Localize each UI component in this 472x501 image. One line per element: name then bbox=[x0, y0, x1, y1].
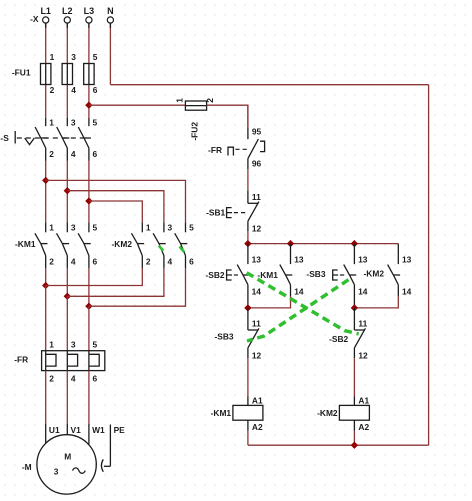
wire SB2 NC to coil KM2 bbox=[353, 358, 355, 396]
wire N terminal down bbox=[109, 23, 111, 84]
wire SB1 to control rail bbox=[247, 231, 249, 243]
pushbutton SB2 NC interlock bbox=[354, 308, 368, 360]
svg-text:A1: A1 bbox=[252, 396, 263, 406]
svg-text:13: 13 bbox=[402, 254, 412, 264]
svg-text:14: 14 bbox=[358, 286, 368, 296]
svg-text:12: 12 bbox=[252, 224, 262, 234]
node L2 branch bbox=[64, 187, 71, 194]
svg-text:5: 5 bbox=[93, 340, 98, 350]
svg-text:L3: L3 bbox=[84, 6, 95, 16]
svg-text:1: 1 bbox=[146, 223, 151, 233]
FR heater element 3 bbox=[89, 340, 99, 384]
coil KM2 bbox=[339, 396, 369, 433]
pushbutton SB3 NO start rev bbox=[333, 244, 368, 308]
wire coil return rail bottom bbox=[248, 444, 429, 446]
wire FR aux to SB1 bbox=[247, 169, 249, 190]
wire KM2 pole2 out join bbox=[67, 268, 164, 296]
svg-text:-SB1: -SB1 bbox=[206, 207, 225, 217]
terminal stubs bbox=[46, 23, 111, 28]
wire coil KM1 to bottom rail bbox=[247, 431, 249, 445]
svg-text:-FR: -FR bbox=[14, 355, 28, 365]
svg-text:11: 11 bbox=[252, 319, 261, 329]
svg-text:2: 2 bbox=[49, 373, 54, 383]
svg-text:3: 3 bbox=[71, 118, 76, 128]
wire L2 branch to KM2 pole2 bbox=[67, 191, 164, 223]
svg-text:3: 3 bbox=[168, 223, 173, 233]
svg-text:5: 5 bbox=[93, 118, 98, 128]
motor PE lead bbox=[101, 425, 125, 472]
wire FU2 corner to FR aux bbox=[247, 105, 249, 128]
svg-text:A2: A2 bbox=[358, 422, 369, 432]
svg-text:-SB2: -SB2 bbox=[329, 334, 348, 344]
svg-text:13: 13 bbox=[294, 254, 304, 264]
svg-text:L2: L2 bbox=[62, 6, 73, 16]
svg-text:6: 6 bbox=[189, 257, 194, 267]
node L1 branch bbox=[42, 177, 49, 184]
svg-text:1: 1 bbox=[49, 118, 54, 128]
wire L3 terminal to fuse FU1.3 bbox=[88, 23, 90, 118]
wire control rail 1 bbox=[248, 243, 398, 245]
wire FR to motor U1 bbox=[45, 371, 47, 424]
svg-text:95: 95 bbox=[252, 127, 262, 137]
wire L1 branch to KM2 pole3 bbox=[46, 180, 186, 222]
green link SB2 NO to SB2 NC bbox=[247, 273, 359, 334]
svg-text:1: 1 bbox=[49, 223, 54, 233]
wire U row to FR bbox=[45, 286, 47, 351]
svg-text:12: 12 bbox=[358, 350, 368, 360]
wire S pole3 to node row bbox=[88, 161, 90, 223]
FR heater element 1 bbox=[46, 340, 56, 384]
svg-text:-X: -X bbox=[30, 14, 39, 24]
svg-text:13: 13 bbox=[358, 254, 368, 264]
wire W row to FR bbox=[88, 306, 90, 351]
fuse FU1 pole 2 bbox=[62, 52, 76, 95]
svg-text:PE: PE bbox=[114, 425, 126, 435]
svg-text:A1: A1 bbox=[358, 396, 369, 406]
terminal -X L3 bbox=[84, 6, 95, 23]
svg-text:-M: -M bbox=[22, 462, 32, 472]
wire FR to motor V1 bbox=[66, 371, 68, 424]
contactor KM2 main pole 1 bbox=[132, 222, 151, 268]
svg-text:-SB3: -SB3 bbox=[215, 332, 234, 342]
wire fuse FU2 to corner and down bbox=[207, 105, 248, 128]
wire L1 terminal to fuse FU1.1 bbox=[45, 23, 47, 118]
switch S pole 3 bbox=[78, 118, 97, 161]
svg-text:3: 3 bbox=[71, 223, 76, 233]
svg-text:L1: L1 bbox=[40, 6, 51, 16]
svg-text:A2: A2 bbox=[252, 422, 263, 432]
pushbutton SB3 NC interlock bbox=[248, 308, 262, 360]
terminal -X L2 bbox=[62, 6, 73, 23]
wire L3 branch to KM2 pole1 bbox=[89, 201, 142, 222]
svg-text:4: 4 bbox=[71, 373, 76, 383]
coil KM1 bbox=[233, 396, 263, 433]
wire SB3 NC to coil KM1 bbox=[247, 358, 249, 396]
terminal -X N bbox=[107, 6, 114, 23]
svg-text:W1: W1 bbox=[92, 425, 105, 435]
svg-text:6: 6 bbox=[93, 257, 98, 267]
svg-text:2: 2 bbox=[49, 257, 54, 267]
node rail KM1 aux bbox=[287, 240, 294, 247]
contactor KM1 main pole 3 bbox=[78, 222, 97, 268]
svg-text:-KM1: -KM1 bbox=[15, 239, 36, 249]
contactor KM1 main pole 1 bbox=[35, 222, 54, 268]
svg-text:N: N bbox=[107, 6, 114, 16]
contactor KM1 aux NO 13-14 bbox=[280, 244, 304, 297]
wire FR to motor W1 bbox=[88, 371, 90, 424]
contactor KM2 main pole 2 bbox=[153, 222, 172, 268]
wire S pole1 to node row bbox=[45, 161, 47, 223]
pushbutton SB1 NC stop bbox=[227, 191, 262, 234]
svg-text:3: 3 bbox=[71, 52, 76, 62]
node L3 branch bbox=[86, 198, 93, 205]
motor M1 bbox=[37, 424, 105, 494]
wire KM1 pole2 out bbox=[66, 268, 68, 296]
contactor KM2 aux NO 13-14 bbox=[388, 244, 412, 297]
svg-text:2: 2 bbox=[146, 257, 151, 267]
svg-text:12: 12 bbox=[252, 350, 262, 360]
node rail SB3 bbox=[351, 240, 358, 247]
fuse FU1 pole 3 bbox=[84, 52, 98, 95]
wire N rail top bbox=[110, 84, 428, 86]
contactor KM1 main pole 2 bbox=[57, 222, 76, 268]
svg-text:11: 11 bbox=[252, 192, 261, 202]
svg-text:96: 96 bbox=[252, 159, 262, 169]
svg-text:3: 3 bbox=[54, 467, 59, 477]
node rail SB2 bbox=[245, 240, 252, 247]
switch S pole 1 bbox=[35, 118, 54, 161]
node FU2 tap on L3 bbox=[86, 102, 93, 109]
svg-text:-SB2: -SB2 bbox=[206, 270, 225, 280]
node coil return bbox=[351, 442, 358, 449]
svg-text:-KM1: -KM1 bbox=[211, 408, 232, 418]
node latch KM2 bbox=[351, 305, 358, 312]
wire KM2 pole1 out join bbox=[46, 268, 143, 286]
svg-text:5: 5 bbox=[93, 223, 98, 233]
svg-text:-FU2: -FU2 bbox=[190, 122, 200, 141]
svg-text:14: 14 bbox=[402, 286, 412, 296]
svg-text:4: 4 bbox=[168, 257, 173, 267]
svg-text:14: 14 bbox=[294, 286, 304, 296]
svg-text:1: 1 bbox=[49, 340, 54, 350]
disconnect switch S actuator bbox=[15, 131, 84, 145]
fuse FU2 bbox=[174, 98, 215, 111]
wire V row to FR bbox=[66, 296, 68, 350]
FR auxiliary NC contact 95-96 bbox=[228, 127, 265, 170]
wire KM1 pole3 out bbox=[88, 268, 90, 306]
svg-text:U1: U1 bbox=[49, 425, 60, 435]
wire KM2 pole3 out join bbox=[89, 268, 186, 306]
fuse FU1 pole 1 bbox=[41, 52, 55, 95]
svg-text:13: 13 bbox=[252, 254, 262, 264]
svg-text:-S: -S bbox=[0, 133, 9, 143]
svg-text:4: 4 bbox=[71, 149, 76, 159]
KM2 mechanical link green dash a bbox=[159, 246, 164, 251]
svg-text:2: 2 bbox=[49, 149, 54, 159]
contactor KM2 main pole 3 bbox=[175, 222, 194, 268]
wire coil KM2 to bottom rail bbox=[353, 431, 355, 445]
svg-text:-SB3: -SB3 bbox=[306, 269, 325, 279]
svg-text:11: 11 bbox=[358, 319, 367, 329]
wire KM1 aux to latch rail bbox=[248, 296, 291, 308]
svg-text:6: 6 bbox=[93, 85, 98, 95]
svg-text:5: 5 bbox=[93, 52, 98, 62]
wire L2 terminal to fuse FU1.2 bbox=[66, 23, 68, 118]
wire KM2 aux to latch rail bbox=[354, 296, 398, 308]
green link SB3 NO to SB3 NC bbox=[247, 280, 349, 341]
svg-text:6: 6 bbox=[93, 149, 98, 159]
svg-text:6: 6 bbox=[93, 373, 98, 383]
svg-text:2: 2 bbox=[205, 98, 215, 103]
svg-text:5: 5 bbox=[189, 223, 194, 233]
svg-text:M: M bbox=[64, 451, 71, 461]
svg-text:4: 4 bbox=[71, 257, 76, 267]
svg-text:-KM2: -KM2 bbox=[112, 239, 133, 249]
svg-text:V1: V1 bbox=[71, 425, 82, 435]
node join W row bbox=[86, 303, 93, 310]
wire S pole2 to node row bbox=[66, 161, 68, 223]
switch S pole 2 bbox=[57, 118, 76, 161]
svg-text:-FU1: -FU1 bbox=[12, 68, 31, 78]
node join V row bbox=[64, 293, 71, 300]
svg-text:2: 2 bbox=[50, 85, 55, 95]
FR heater element 2 bbox=[67, 340, 77, 384]
svg-text:4: 4 bbox=[71, 85, 76, 95]
node join U row bbox=[42, 282, 49, 289]
svg-text:-KM2: -KM2 bbox=[364, 269, 385, 279]
svg-text:14: 14 bbox=[252, 286, 262, 296]
thermal overload relay FR body bbox=[42, 351, 105, 371]
svg-text:-KM1: -KM1 bbox=[257, 270, 278, 280]
terminal -X L1 bbox=[40, 6, 51, 23]
pushbutton SB2 NO start fwd bbox=[227, 244, 262, 308]
svg-text:-KM2: -KM2 bbox=[317, 408, 338, 418]
KM2 mechanical link green dash b bbox=[180, 247, 185, 253]
wire tap to fuse FU2 bbox=[89, 104, 185, 106]
node latch KM1 bbox=[245, 305, 252, 312]
wire N rail right side bbox=[428, 85, 430, 446]
svg-text:1: 1 bbox=[50, 52, 55, 62]
svg-text:3: 3 bbox=[71, 340, 76, 350]
svg-text:-FR: -FR bbox=[208, 145, 222, 155]
svg-text:1: 1 bbox=[174, 98, 184, 103]
wire KM1 pole1 out bbox=[45, 268, 47, 286]
